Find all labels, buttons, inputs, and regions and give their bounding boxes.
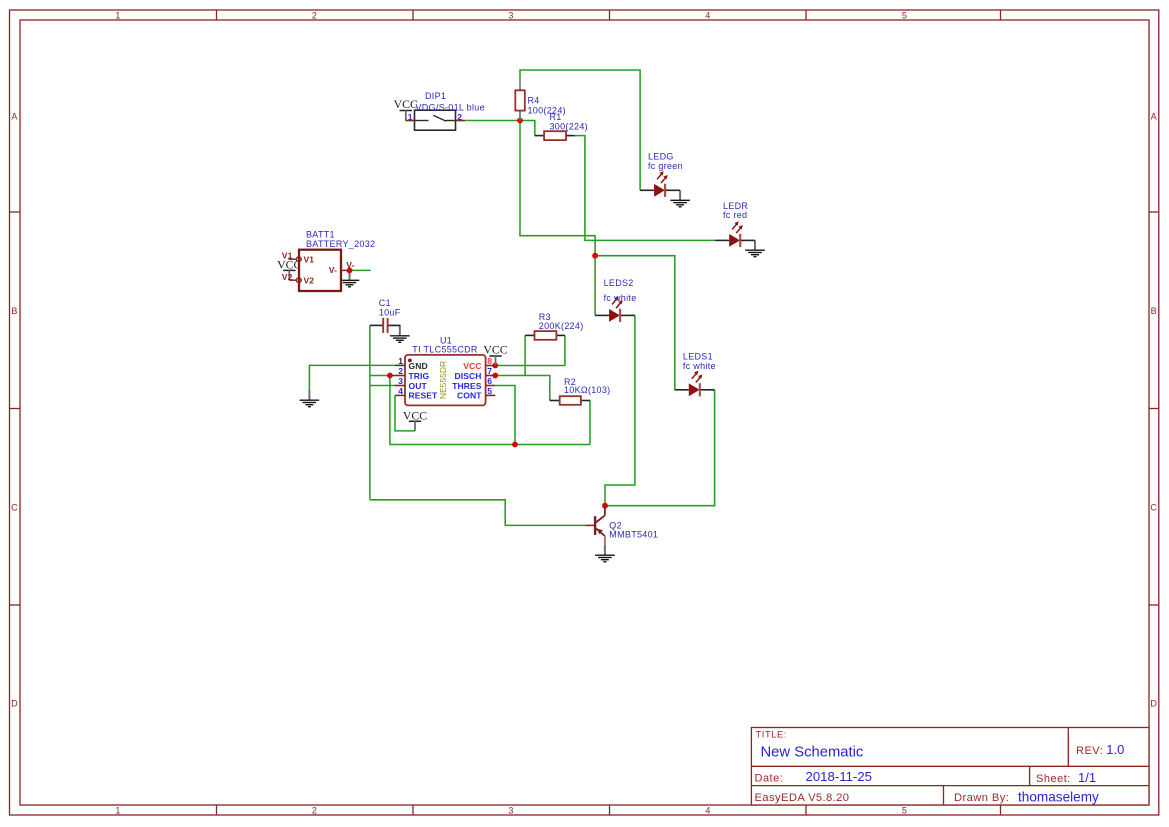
svg-text:LEDG: LEDG (648, 151, 674, 161)
ground at C1 (388, 325, 399, 327)
svg-text:V-: V- (329, 265, 337, 275)
switch DIP1 (415, 110, 456, 130)
svg-text:BATTERY_2032: BATTERY_2032 (306, 239, 375, 249)
svg-text:R4: R4 (528, 95, 540, 105)
svg-text:fc red: fc red (723, 210, 747, 220)
svg-text:B: B (1151, 306, 1157, 316)
battery pin V- (341, 269, 350, 271)
svg-text:V2: V2 (304, 275, 315, 285)
junction node at 349.5,270.4 (347, 268, 353, 274)
U1 pin 2 TRIG stub (390, 375, 405, 377)
svg-text:5: 5 (902, 10, 907, 20)
ruler ticks top (216, 10, 218, 20)
op-amp U1 TLC555 body (405, 355, 486, 406)
resistor R4 (519, 80, 521, 90)
svg-text:V1: V1 (304, 254, 315, 264)
svg-text:10KΩ(103): 10KΩ(103) (564, 385, 610, 395)
junction node at 595.1,255.7 (592, 253, 598, 259)
U1 pin 8 VCC stub (486, 365, 496, 367)
ruler ticks right (1149, 211, 1159, 213)
wire GND flag to pin1 (309, 365, 395, 390)
ground at GND flag (308, 390, 310, 400)
svg-text:8: 8 (487, 356, 492, 366)
wire OUT net to Q2 base (370, 500, 586, 526)
svg-text:B: B (11, 306, 17, 316)
U1 pin 7 DISCH stub (486, 375, 496, 377)
ground at LEDR (754, 240, 756, 250)
svg-text:BATT1: BATT1 (306, 230, 335, 240)
svg-text:THRES: THRES (452, 381, 482, 391)
svg-text:3: 3 (508, 10, 513, 20)
svg-text:EasyEDA V5.8.20: EasyEDA V5.8.20 (755, 792, 850, 804)
resistor R2 (550, 400, 560, 402)
svg-text:R1: R1 (550, 112, 562, 122)
U1 pin1 indicator dot (408, 359, 412, 363)
wire branch to TRIG junction (370, 375, 390, 377)
svg-text:NE555DR: NE555DR (438, 361, 448, 399)
svg-text:fc green: fc green (648, 161, 683, 171)
svg-text:10uF: 10uF (379, 308, 401, 318)
svg-text:2: 2 (312, 806, 317, 816)
resistor R3 (525, 334, 534, 336)
svg-text:thomaselemy: thomaselemy (1018, 790, 1099, 805)
ruler ticks bottom (216, 805, 218, 815)
wire battery V- to net (350, 269, 371, 271)
junction node at 495.3,365.5 (492, 363, 498, 369)
battery pin V1 (289, 258, 297, 260)
wire node to LEDS1 anode (595, 256, 675, 390)
svg-text:2: 2 (457, 112, 462, 122)
svg-text:5: 5 (902, 806, 907, 816)
U1 pin 4 RESET stub (395, 394, 405, 396)
svg-text:Date:: Date: (755, 772, 784, 784)
ruler ticks left (10, 211, 21, 213)
svg-text:VCC: VCC (394, 97, 418, 111)
wire R3 left down to pin7 net (524, 335, 526, 375)
LED LEDS2 (595, 314, 609, 316)
wire THRES pin down to net (495, 386, 516, 445)
U1 pin 5 CONT stub (486, 394, 496, 396)
svg-text:1.0: 1.0 (1106, 742, 1124, 757)
wire R2 right down to THRES net (589, 401, 591, 445)
junction node at 515,444.5 (512, 442, 518, 448)
wire R1 right down to LEDR anode (575, 136, 716, 241)
U1 pin 1 GND stub (395, 364, 405, 366)
svg-text:2: 2 (312, 10, 317, 20)
svg-text:DIP1: DIP1 (425, 91, 446, 101)
battery pin V2 (289, 279, 296, 281)
svg-text:7: 7 (487, 366, 492, 376)
svg-text:4: 4 (398, 386, 403, 396)
wire branch to OUT pin (370, 385, 395, 387)
svg-text:3: 3 (508, 806, 513, 816)
wire VCC top rail R4-top to LEDG (520, 70, 640, 190)
wire junction to R1 left (520, 121, 535, 136)
svg-text:MMBT5401: MMBT5401 (609, 530, 658, 540)
junction node at 605,505.7 (602, 503, 608, 509)
svg-text:LEDS2: LEDS2 (604, 278, 634, 288)
junction node at 520,120.5 (517, 118, 523, 124)
svg-text:REV:: REV: (1076, 745, 1103, 757)
svg-text:TI TLC555CDR: TI TLC555CDR (412, 345, 478, 355)
transistor Q2 MMBT5401 (604, 507, 606, 515)
svg-text:RESET: RESET (409, 391, 439, 401)
ground at Q2 emitter (604, 545, 606, 555)
svg-text:DISCH: DISCH (455, 371, 482, 381)
svg-text:1: 1 (115, 10, 120, 20)
svg-text:C: C (1150, 502, 1157, 512)
svg-text:2: 2 (398, 366, 403, 376)
svg-text:Drawn By:: Drawn By: (954, 792, 1009, 804)
battery BATT1 (299, 250, 341, 291)
svg-text:A: A (11, 111, 17, 121)
wire DIP1 pin2 to junction (465, 120, 520, 122)
svg-text:Sheet:: Sheet: (1036, 773, 1071, 785)
svg-text:3: 3 (398, 376, 403, 386)
junction node at 495.3,375.5 (492, 373, 498, 379)
resistor R1 (535, 135, 544, 137)
LED LEDG (640, 189, 654, 191)
wire VCC pin8 to R3 right (495, 335, 565, 365)
svg-text:V1: V1 (282, 251, 293, 261)
svg-text:1/1: 1/1 (1078, 770, 1096, 785)
svg-text:VCC: VCC (483, 342, 507, 356)
wire RESET pin to VCC flag (395, 395, 415, 431)
svg-text:C: C (11, 502, 18, 512)
U1 pin 3 OUT stub (395, 385, 405, 387)
svg-text:A: A (1151, 111, 1157, 121)
svg-text:CONT: CONT (457, 391, 482, 401)
svg-text:V-: V- (346, 260, 354, 270)
wire LEDS1 cathode to Q2 collector node (605, 390, 715, 506)
LED LEDR (715, 239, 729, 241)
svg-text:D: D (11, 698, 18, 708)
U1 pin 6 THRES stub (486, 385, 495, 387)
svg-text:1: 1 (398, 356, 403, 366)
svg-text:200K(224): 200K(224) (539, 321, 584, 331)
ground at LEDG (679, 190, 681, 200)
svg-text:fc white: fc white (604, 293, 637, 303)
svg-text:fc white: fc white (683, 361, 716, 371)
wire TRIG down to THRES net (390, 376, 590, 445)
junction node at 389.9,375.5 (387, 373, 393, 379)
svg-text:New Schematic: New Schematic (761, 744, 864, 760)
svg-text:V2: V2 (282, 272, 293, 282)
capacitor C1 (370, 324, 382, 326)
title block outline (751, 728, 1149, 806)
wire LEDS2 cathode to Q2 collector node (605, 315, 635, 505)
svg-text:VCC: VCC (463, 361, 481, 371)
wire C1 left down to TRIG/OUT vertical (369, 325, 371, 499)
svg-text:4: 4 (705, 806, 710, 816)
svg-text:6: 6 (487, 376, 492, 386)
LED LEDS1 (675, 389, 689, 391)
svg-text:VCC: VCC (403, 408, 427, 422)
svg-text:1: 1 (115, 806, 120, 816)
wire junction down right and down to node and LEDS2 anode (520, 121, 595, 316)
svg-text:D: D (1150, 698, 1157, 708)
svg-text:OUT: OUT (409, 381, 428, 391)
svg-text:4: 4 (705, 10, 710, 20)
svg-text:5: 5 (487, 386, 492, 396)
svg-text:GND: GND (409, 361, 428, 371)
svg-text:VDG/S-01L blue: VDG/S-01L blue (415, 103, 484, 113)
svg-text:1: 1 (408, 112, 413, 122)
svg-text:TITLE:: TITLE: (756, 729, 788, 739)
ground at battery V- (349, 270, 351, 280)
wire DISCH pin7 to R2 left (495, 376, 550, 401)
svg-text:300(224): 300(224) (550, 122, 588, 132)
svg-text:2018-11-25: 2018-11-25 (806, 769, 872, 784)
svg-text:TRIG: TRIG (409, 371, 430, 381)
